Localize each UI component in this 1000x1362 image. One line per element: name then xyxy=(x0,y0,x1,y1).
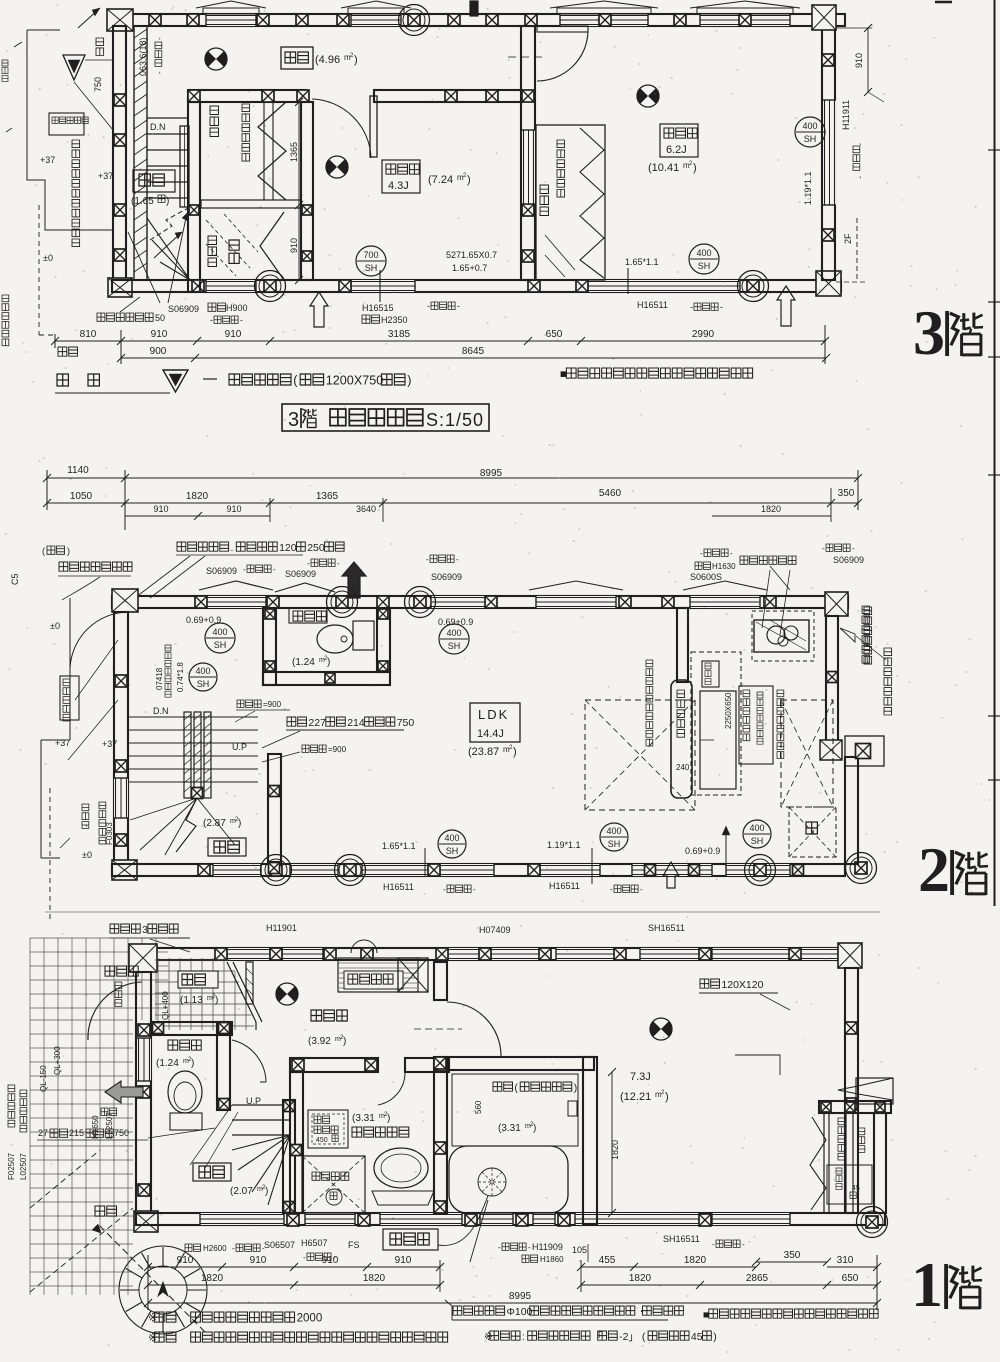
2F toilet bowl xyxy=(317,625,353,653)
svg-text:H11911: H11911 xyxy=(841,100,851,130)
svg-text:): ) xyxy=(533,1123,536,1134)
1F kamachi edge xyxy=(227,962,256,1022)
svg-text:+37: +37 xyxy=(55,738,70,748)
legend hanrei xyxy=(57,374,68,386)
2F small up arrow xyxy=(663,862,679,888)
svg-text:S06909: S06909 xyxy=(431,572,462,582)
svg-text:1820: 1820 xyxy=(610,1140,620,1160)
svg-text:C5: C5 xyxy=(10,573,20,585)
svg-text:(12.21: (12.21 xyxy=(620,1091,651,1103)
svg-text:LDK: LDK xyxy=(478,707,509,722)
1F porch label xyxy=(105,966,138,976)
3F room divider wall A/B xyxy=(521,26,535,280)
3F closet shelf divider xyxy=(201,200,301,208)
1F left margin vtexts xyxy=(8,1085,15,1127)
svg-text:-: - xyxy=(456,555,459,564)
3F left wall columns xyxy=(114,94,126,106)
svg-text:): ) xyxy=(713,1331,717,1343)
1F washroom door arc xyxy=(378,1072,405,1105)
1F big cross box xyxy=(398,958,428,992)
svg-text:-: - xyxy=(700,549,703,558)
2F right wall mid boxes xyxy=(820,740,842,760)
2F bottom-left corner column xyxy=(112,860,137,880)
1F kyutoki leader xyxy=(438,1196,488,1245)
svg-text:1050: 1050 xyxy=(70,491,93,502)
2F bay appendix xyxy=(845,736,884,766)
1F dim row2 xyxy=(148,1284,440,1286)
svg-text:H1630: H1630 xyxy=(712,562,736,571)
2F counter vtext xyxy=(677,690,685,737)
svg-text:-: - xyxy=(303,1253,306,1262)
3F bottom wall xyxy=(112,280,841,292)
svg-text:FS: FS xyxy=(348,1240,360,1250)
1F hall vent symbol xyxy=(276,983,298,1005)
3F chimney mark xyxy=(470,1,478,16)
1F washroom label xyxy=(352,1127,409,1137)
3F stairs direction arrow xyxy=(154,232,182,258)
2F left wall window F0303 xyxy=(114,778,128,818)
1F genkan label xyxy=(178,971,218,988)
1F washroom west wall xyxy=(290,1072,303,1213)
svg-text:5460: 5460 xyxy=(599,488,622,499)
2F rangefood xyxy=(740,556,796,564)
2F bottom wall windows xyxy=(213,864,261,876)
svg-text:-: - xyxy=(443,885,446,894)
svg-text:H900: H900 xyxy=(226,303,248,313)
svg-text:-: - xyxy=(307,559,310,568)
1F toilet label xyxy=(168,1040,201,1050)
1F dim row1 xyxy=(148,1266,440,1268)
2F LDK box xyxy=(470,703,520,742)
1F toilet wall columns xyxy=(153,1023,164,1034)
svg-text:400: 400 xyxy=(802,121,817,131)
3F closet folding door lower xyxy=(260,212,284,280)
svg-text:560: 560 xyxy=(474,1100,483,1114)
2F tesuri note a xyxy=(237,700,261,707)
2F drain vtext xyxy=(646,660,653,746)
svg-text:S06909: S06909 xyxy=(833,555,864,565)
2F bottom wall circled columns xyxy=(261,855,292,886)
svg-text:400: 400 xyxy=(212,627,227,637)
svg-text:400: 400 xyxy=(696,248,711,258)
3F stairwell hatched wall xyxy=(134,26,147,280)
2F right wall lower xyxy=(845,757,858,864)
3F room A vent symbol xyxy=(326,156,348,178)
svg-text:Φ100: Φ100 xyxy=(507,1306,533,1318)
3F stairs label box xyxy=(133,170,175,192)
svg-text:0.69+0.9: 0.69+0.9 xyxy=(186,615,221,625)
2F stairs label box xyxy=(208,838,246,856)
legend triangle xyxy=(163,370,188,392)
3F SH circle 700 left xyxy=(356,246,386,276)
3F bottom wall window ticks xyxy=(379,270,381,302)
svg-text:3640: 3640 xyxy=(356,504,376,514)
2F fridge dashed xyxy=(789,807,836,857)
svg-text:1140: 1140 xyxy=(67,465,89,476)
1F porch junshabo xyxy=(115,982,122,1006)
svg-text:): ) xyxy=(693,162,697,174)
3F bottom wall columns xyxy=(192,280,204,292)
svg-text:): ) xyxy=(265,1186,268,1197)
3F balcony outline xyxy=(27,30,113,230)
1F pillar note xyxy=(700,979,720,988)
svg-text:+37: +37 xyxy=(102,739,117,749)
1F washroom top wall b xyxy=(405,1058,449,1072)
1F entrance arrow xyxy=(105,1081,143,1103)
3F closet west wall xyxy=(188,102,200,292)
3F room dim 910v xyxy=(298,205,300,280)
svg-text:3: 3 xyxy=(913,297,945,368)
svg-text:-: - xyxy=(473,885,476,894)
2F kitchen unit dashed xyxy=(752,611,814,661)
svg-text:): ) xyxy=(407,374,411,388)
svg-text:-: - xyxy=(210,315,213,325)
3F SH circle 400 right xyxy=(689,244,719,274)
svg-text:): ) xyxy=(215,995,218,1006)
2F SH circle b xyxy=(189,663,217,691)
2F right wall columns xyxy=(827,672,838,683)
north label xyxy=(95,1206,117,1216)
svg-text:45: 45 xyxy=(852,1185,860,1192)
1F stairs winders xyxy=(232,1135,290,1205)
3F room A label box xyxy=(382,160,420,193)
svg-text:L02507: L02507 xyxy=(19,1153,28,1180)
3F right wall window xyxy=(823,100,836,205)
1F washroom top wall xyxy=(290,1058,378,1072)
3F dim row1 xyxy=(55,340,825,342)
svg-text:±0: ±0 xyxy=(43,253,53,263)
1F dim 310 xyxy=(827,1266,877,1268)
1F bath dim 1820 xyxy=(611,1072,613,1213)
1F bottom wall xyxy=(136,1213,885,1225)
svg-text:SH16511: SH16511 xyxy=(648,923,685,933)
svg-text:.: . xyxy=(231,542,234,554)
svg-text::: : xyxy=(522,1331,525,1343)
svg-text:-: - xyxy=(856,143,865,146)
svg-text:SH16511: SH16511 xyxy=(663,1234,700,1244)
3F room B vent symbol xyxy=(637,85,659,107)
svg-text:(23.87: (23.87 xyxy=(468,746,499,758)
svg-text:120X120: 120X120 xyxy=(721,979,763,991)
1F stairs treads xyxy=(232,1105,290,1135)
svg-text:910: 910 xyxy=(226,504,241,514)
2F top wall columns xyxy=(195,596,207,608)
1F right appendix xyxy=(856,1078,893,1104)
2F SH circle f xyxy=(743,820,771,848)
porch tile grid upper xyxy=(30,938,168,1020)
3F sash note H2350 xyxy=(362,315,380,323)
svg-text:-: - xyxy=(457,301,460,311)
2F dim posts xyxy=(124,470,126,530)
2F fridge space dashed xyxy=(781,700,833,807)
svg-text:1.19*1.1: 1.19*1.1 xyxy=(803,171,813,205)
svg-text:4.3J: 4.3J xyxy=(388,180,409,192)
2F top wall xyxy=(112,596,848,608)
svg-text:): ) xyxy=(238,818,241,829)
3F top wall circled column xyxy=(399,5,430,36)
svg-text:1.65*1.1: 1.65*1.1 xyxy=(382,841,416,851)
1F closet vtexts xyxy=(838,1118,845,1160)
1F bottom-left corner column xyxy=(134,1211,158,1232)
2F toilet label xyxy=(289,608,327,623)
svg-text:120: 120 xyxy=(279,542,297,554)
svg-text:3: 3 xyxy=(288,409,299,431)
svg-text:910: 910 xyxy=(395,1255,412,1266)
svg-text:2250X650: 2250X650 xyxy=(724,692,733,729)
svg-text:2865: 2865 xyxy=(746,1273,769,1284)
svg-text:-: - xyxy=(498,1243,501,1252)
svg-text:1.65+0.7: 1.65+0.7 xyxy=(452,263,487,273)
1F bath top wall xyxy=(447,1057,594,1070)
3F closet label tenbukuro xyxy=(210,106,219,137)
1F left wall columns xyxy=(138,1024,150,1036)
svg-text:1.65*1.1: 1.65*1.1 xyxy=(625,257,659,267)
2F SH circle e xyxy=(600,823,628,851)
1F top wall xyxy=(131,948,860,960)
2F bay vtext xyxy=(864,607,872,664)
svg-text:-: - xyxy=(155,37,164,40)
3F room A door arc xyxy=(312,99,371,158)
2F bottom wall xyxy=(112,864,845,876)
3F top wall window lintel bars xyxy=(203,8,259,14)
svg-text:SH: SH xyxy=(608,839,621,849)
3F room B closet labels xyxy=(540,185,549,216)
svg-text:): ) xyxy=(166,196,169,207)
svg-text:750: 750 xyxy=(93,77,103,92)
3F balcony label box xyxy=(49,113,84,135)
3F room B closet outline xyxy=(536,125,605,280)
compass xyxy=(119,1246,207,1334)
svg-text:-: - xyxy=(426,555,429,564)
svg-text:240: 240 xyxy=(676,763,690,772)
svg-text:): ) xyxy=(467,174,471,186)
3F balcony entry triangle xyxy=(63,55,85,80)
svg-text:L02507: L02507 xyxy=(105,1112,114,1139)
3F top wall windows xyxy=(206,14,256,26)
svg-text:QL-150: QL-150 xyxy=(39,1065,48,1092)
1F bath center wall xyxy=(434,1057,447,1213)
svg-text:S06507: S06507 xyxy=(264,1240,295,1250)
3F stairs rail xyxy=(180,126,189,207)
3F stairs treads xyxy=(147,118,188,198)
1F hall-room wall xyxy=(434,962,447,1000)
1F closet east wall xyxy=(874,1113,886,1213)
3F closet wall columns xyxy=(189,205,199,215)
svg-text:D.N: D.N xyxy=(150,122,166,132)
2F sirocco fan vtext xyxy=(862,606,870,663)
1F dim row1 right xyxy=(581,1266,756,1268)
svg-text:=900: =900 xyxy=(263,700,282,709)
svg-text:QL+400: QL+400 xyxy=(161,991,170,1020)
1F kyutoki box xyxy=(383,1229,438,1250)
svg-text:): ) xyxy=(665,1091,669,1103)
svg-text:): ) xyxy=(343,1036,346,1047)
svg-text:-: - xyxy=(712,1240,715,1249)
svg-text:105: 105 xyxy=(572,1245,587,1255)
svg-text:910: 910 xyxy=(854,53,864,68)
2F dim row1 xyxy=(47,477,858,479)
3F closet label closet xyxy=(242,104,250,161)
svg-text:(3.31: (3.31 xyxy=(498,1123,521,1134)
svg-text:-: - xyxy=(273,565,276,574)
1F porch door arc xyxy=(88,982,142,1040)
2F balcony label box xyxy=(60,676,79,720)
svg-text:0.69+0.9: 0.69+0.9 xyxy=(685,846,720,856)
2F stairs down zigzag xyxy=(176,798,197,852)
svg-text:(: ( xyxy=(42,546,45,556)
3F top-right corner column xyxy=(812,5,836,30)
1F stairs label box xyxy=(193,1163,231,1181)
svg-text:QL+300: QL+300 xyxy=(53,1046,62,1075)
2F top wall circled columns xyxy=(327,587,358,618)
2F rangehood leader xyxy=(762,570,770,628)
2F counter inner xyxy=(700,691,736,789)
svg-text:±0: ±0 xyxy=(82,850,92,860)
svg-text:-: - xyxy=(528,1243,531,1252)
1F toilet bowl xyxy=(168,1071,202,1113)
svg-text:750: 750 xyxy=(397,717,415,729)
3F bottom-left corner column xyxy=(108,278,132,297)
svg-text:(2.07: (2.07 xyxy=(230,1186,253,1197)
svg-text:-: - xyxy=(155,71,164,74)
svg-text:45: 45 xyxy=(691,1331,703,1343)
svg-text:F0303: F0303 xyxy=(105,822,114,845)
1F washbasin xyxy=(374,1148,428,1188)
1F closet top columns xyxy=(821,1102,831,1112)
page right border xyxy=(994,0,996,906)
3F closet inner partition xyxy=(263,102,265,200)
3F right dim 910 xyxy=(867,28,869,92)
svg-text:1820: 1820 xyxy=(761,504,781,514)
3F closet label tenbukuro2 xyxy=(208,236,217,267)
3F bottom wall circled columns xyxy=(255,271,286,302)
svg-text:650: 650 xyxy=(546,329,563,340)
svg-text:H16511: H16511 xyxy=(549,881,580,891)
1F underfloor access xyxy=(308,1110,348,1148)
1F washroom west columns xyxy=(291,1145,302,1156)
1F waterproof pan xyxy=(302,1156,365,1213)
2F kitchen west wall xyxy=(677,608,688,682)
svg-text:-: - xyxy=(232,1244,235,1253)
svg-text:650: 650 xyxy=(842,1273,859,1284)
1F room door arc xyxy=(447,1002,501,1056)
3F partition columns xyxy=(188,90,200,102)
svg-text:227: 227 xyxy=(308,717,326,729)
1F closet inner walls xyxy=(823,1113,825,1213)
2F left wall columns xyxy=(115,675,127,687)
svg-text:-: - xyxy=(856,176,865,179)
svg-text:250: 250 xyxy=(307,542,325,554)
1F bath center columns xyxy=(434,1057,446,1069)
svg-text:0.74*1.8: 0.74*1.8 xyxy=(176,662,185,692)
1F closet top wall xyxy=(819,1101,891,1113)
svg-text:1820: 1820 xyxy=(684,1255,707,1266)
svg-text:S06909: S06909 xyxy=(168,304,199,314)
svg-text:1365: 1365 xyxy=(316,491,339,502)
legend text xyxy=(229,374,291,385)
svg-text:-: - xyxy=(822,544,825,553)
1F top wall columns xyxy=(215,948,227,960)
left margin tiny marks xyxy=(14,42,22,47)
1F stairs wall xyxy=(283,1100,295,1213)
2F dim row2 xyxy=(47,502,858,504)
svg-text:3185: 3185 xyxy=(388,329,411,340)
1F genkan storage arc xyxy=(351,940,377,953)
2F balcony dashes xyxy=(49,788,51,920)
svg-text:=900: =900 xyxy=(328,745,347,754)
2F balcony door arc xyxy=(70,612,128,668)
legend dash xyxy=(203,378,217,380)
svg-text:SH: SH xyxy=(446,846,459,856)
svg-text:): ) xyxy=(67,546,70,556)
vent cap note xyxy=(453,1306,505,1315)
svg-text:07418: 07418 xyxy=(155,667,164,690)
svg-text:(1.24: (1.24 xyxy=(292,657,315,668)
1F bottom wall windows xyxy=(200,1213,284,1225)
svg-text:50: 50 xyxy=(155,313,165,323)
3F top-left corner column xyxy=(107,9,133,31)
svg-text:SH: SH xyxy=(197,679,210,689)
1F bath label xyxy=(493,1082,513,1091)
svg-text:・: ・ xyxy=(637,1306,648,1318)
1F top wall windows xyxy=(227,948,270,960)
svg-text:): ) xyxy=(191,1058,194,1069)
svg-text:±0: ±0 xyxy=(50,621,60,631)
svg-text:SH: SH xyxy=(751,836,764,846)
svg-text:H1650: H1650 xyxy=(91,1115,100,1139)
1F right wall columns xyxy=(845,1022,857,1034)
2F pantry dashed xyxy=(585,700,695,810)
svg-text:(1.13: (1.13 xyxy=(180,995,203,1006)
2F stairs rails xyxy=(184,712,191,798)
svg-text:215: 215 xyxy=(69,1128,84,1138)
3F balcony dashed drain xyxy=(38,205,40,335)
2F right wall upper xyxy=(826,616,838,742)
svg-text:310: 310 xyxy=(837,1255,854,1266)
svg-text:910: 910 xyxy=(151,329,168,340)
3F top wall xyxy=(112,14,845,26)
svg-text:3: 3 xyxy=(142,924,148,936)
2F bottom-right corner circled column xyxy=(846,853,877,884)
svg-text:-: - xyxy=(640,885,643,894)
3F closet east wall / room A west wall xyxy=(301,102,313,280)
svg-text:750: 750 xyxy=(114,1128,129,1138)
svg-text:(7.24: (7.24 xyxy=(428,174,453,186)
1F room vent symbol xyxy=(650,1018,672,1040)
2F stairs rail column xyxy=(192,788,203,799)
svg-text:910: 910 xyxy=(153,504,168,514)
svg-text:): ) xyxy=(354,54,358,66)
1F left wall xyxy=(136,972,151,1213)
svg-text:1820: 1820 xyxy=(629,1273,652,1284)
svg-text:350: 350 xyxy=(838,488,855,499)
1F bath handle xyxy=(568,1101,577,1116)
3F stairs break line xyxy=(150,207,190,240)
svg-text:063.6(18): 063.6(18) xyxy=(138,37,148,76)
svg-text:(1.24: (1.24 xyxy=(156,1058,179,1069)
3F room B closet hatch xyxy=(545,235,575,277)
svg-text:810: 810 xyxy=(80,329,97,340)
2F toilet west wall xyxy=(263,608,276,685)
svg-text:400: 400 xyxy=(195,666,210,676)
svg-text:14.4J: 14.4J xyxy=(477,728,504,740)
left margin small text xyxy=(2,60,8,81)
3F entry arrow 1 xyxy=(310,292,328,327)
3F closet hatch dashes xyxy=(206,214,258,276)
1F bath east wall xyxy=(583,1057,597,1224)
svg-text:H16511: H16511 xyxy=(637,300,668,310)
svg-text:455: 455 xyxy=(599,1255,616,1266)
